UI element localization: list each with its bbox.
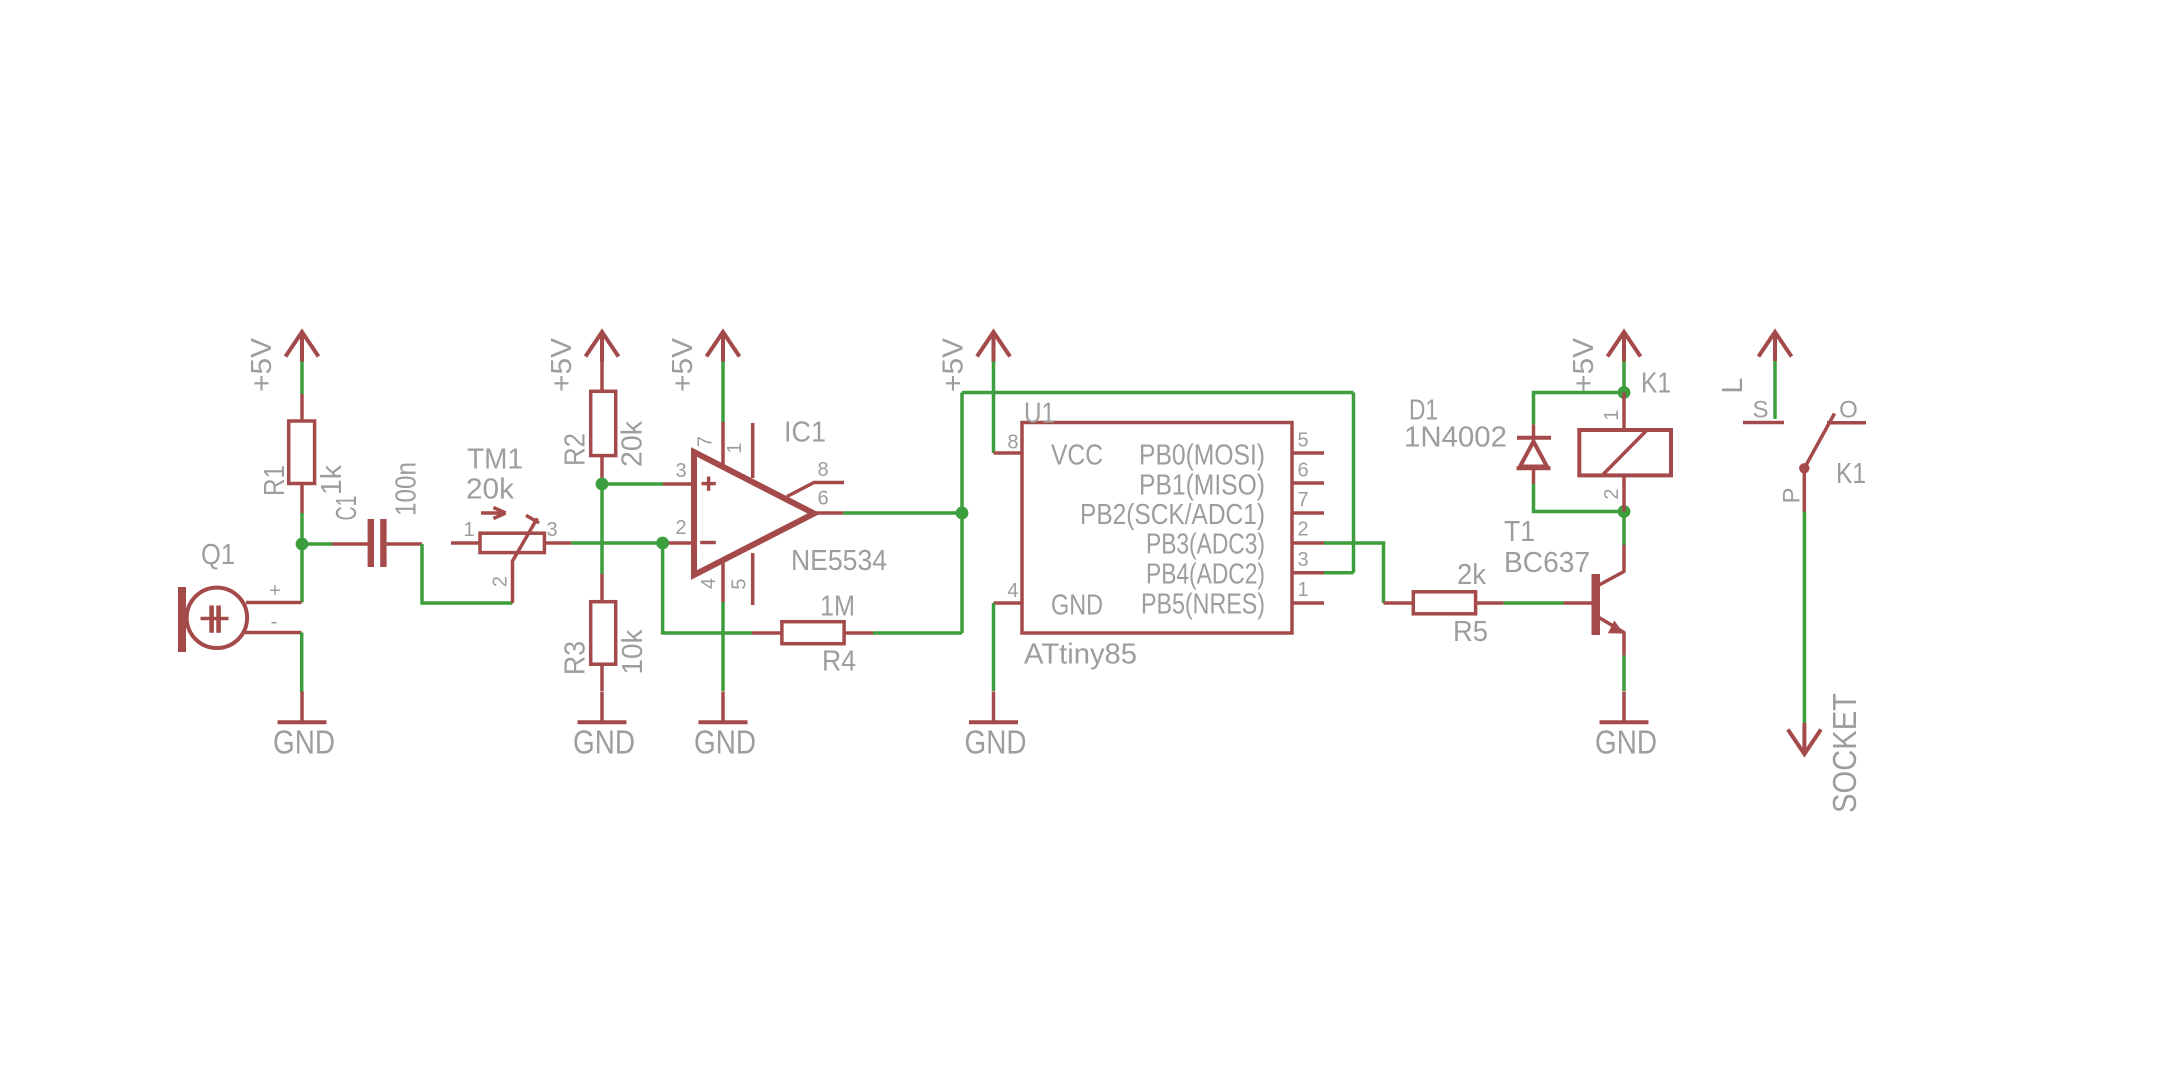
wire +5V to U1 pin8 [992, 362, 996, 454]
pin 8 of IC1 [787, 483, 844, 497]
ground (U1) [969, 692, 1018, 723]
svg-text:7: 7 [695, 436, 717, 447]
wire R5 to T1 base [1504, 601, 1564, 605]
supply +5V (R1 branch) [286, 332, 319, 362]
pin 3 of U1 [1292, 571, 1324, 575]
wire D1 anode to node F [1534, 484, 1625, 512]
wire +5V to node E [1622, 362, 1626, 393]
svg-text:20k: 20k [466, 474, 515, 506]
pin 3 of IC1 [663, 482, 691, 486]
pin 1 of U1 [1292, 601, 1324, 605]
pin 6 of IC1 [814, 511, 843, 515]
svg-text:+5V: +5V [667, 337, 699, 392]
resistor R4 [752, 622, 873, 644]
svg-text:GND: GND [573, 724, 635, 761]
ground (T1) [1600, 692, 1649, 723]
svg-text:IC1: IC1 [784, 417, 826, 449]
svg-text:1: 1 [1601, 409, 1623, 420]
wire node B to R3 [600, 484, 604, 574]
wire IC1 pin4 to GND [721, 602, 725, 691]
resistor R3 [591, 574, 616, 691]
wire TM1 pin3 to op-amp pin2 [571, 541, 663, 545]
svg-text:PB2(SCK/ADC1): PB2(SCK/ADC1) [1080, 499, 1265, 531]
svg-text:20k: 20k [617, 421, 649, 467]
pin 2 of U1 [1292, 541, 1324, 545]
ground (IC1) [699, 692, 748, 723]
svg-text:+: + [269, 580, 281, 602]
svg-text:8: 8 [817, 459, 828, 481]
pin - of Q1 [243, 631, 302, 635]
diode D1 [1517, 424, 1552, 484]
pin 8 of U1 (VCC) [994, 451, 1023, 455]
wire node A to C1 [302, 542, 332, 546]
pin 7 of IC1 [721, 422, 725, 467]
node E junction (relay top) [1618, 386, 1631, 399]
svg-text:1k: 1k [316, 465, 348, 495]
svg-text:3: 3 [1298, 549, 1309, 571]
node D junction (output) [956, 507, 969, 520]
svg-text:1: 1 [1298, 579, 1309, 601]
wire T1 emitter to GND [1622, 656, 1626, 691]
svg-text:GND: GND [694, 724, 756, 761]
wire C1 to TM1 wiper [422, 544, 513, 603]
supply +5V (U1) [977, 332, 1010, 362]
svg-text:L: L [1717, 377, 1749, 393]
resistor R5 [1384, 592, 1504, 614]
wire Q1 minus to GND [300, 633, 304, 693]
svg-text:T1: T1 [1504, 516, 1535, 548]
svg-text:VCC: VCC [1051, 440, 1103, 472]
microphone Q1 [178, 587, 247, 652]
wire into PB4 stub [1324, 571, 1354, 575]
svg-text:1: 1 [724, 442, 746, 453]
svg-text:Q1: Q1 [201, 539, 235, 571]
wire +5V to R1 [300, 362, 304, 395]
wire node E to D1 cathode [1534, 393, 1625, 425]
node C junction (inverting input) [656, 537, 669, 550]
pin 4 of U1 (GND) [994, 601, 1023, 605]
svg-text:+5V: +5V [1568, 337, 1600, 392]
node B junction (R2/R3) [596, 478, 609, 491]
supply arrow SOCKET [1788, 723, 1821, 754]
svg-text:5: 5 [729, 578, 751, 589]
svg-text:1: 1 [463, 519, 474, 541]
svg-text:K1: K1 [1641, 368, 1671, 400]
svg-text:+5V: +5V [246, 337, 278, 392]
svg-text:PB1(MISO): PB1(MISO) [1139, 470, 1265, 502]
svg-text:4: 4 [698, 578, 720, 589]
wire feedback from node C [663, 543, 752, 633]
pin 5 of IC1 [751, 553, 755, 605]
supply +5V (relay) [1608, 332, 1641, 362]
svg-text:S: S [1752, 397, 1768, 424]
svg-text:NE5534: NE5534 [791, 545, 887, 577]
svg-text:GND: GND [1051, 590, 1103, 622]
svg-text:GND: GND [273, 724, 335, 761]
svg-text:8: 8 [1007, 432, 1018, 454]
wire IC1 pin6 to node D [843, 511, 962, 515]
svg-text:5: 5 [1298, 430, 1309, 452]
svg-text:ATtiny85: ATtiny85 [1024, 639, 1137, 671]
svg-text:PB4(ADC2): PB4(ADC2) [1146, 559, 1265, 591]
svg-text:1M: 1M [820, 591, 855, 623]
pin 1 of IC1 [751, 423, 755, 478]
supply +5V (R2 branch) [586, 332, 619, 362]
supply +5V (IC1) [707, 332, 740, 362]
svg-text:BC637: BC637 [1504, 547, 1590, 579]
svg-text:+5V: +5V [546, 337, 578, 392]
svg-text:4: 4 [1007, 580, 1018, 602]
node F junction (relay bottom) [1618, 505, 1631, 518]
svg-text:R2: R2 [560, 433, 592, 466]
contact terminal S [1743, 421, 1784, 425]
ground (R3) [578, 692, 627, 723]
svg-text:C1: C1 [331, 496, 363, 521]
svg-text:SOCKET: SOCKET [1826, 693, 1863, 813]
svg-text:2: 2 [1298, 519, 1309, 541]
svg-text:GND: GND [965, 724, 1027, 761]
switch lever K1 [1799, 414, 1834, 512]
ground (mic) [278, 692, 327, 723]
resistor R2 [591, 362, 616, 484]
wire down to PB4 pin [1352, 393, 1356, 573]
trimmer TM1 [451, 508, 571, 604]
svg-text:3: 3 [546, 519, 557, 541]
svg-text:R1: R1 [259, 465, 291, 496]
wire node B to op-amp pin3 [602, 482, 663, 486]
svg-text:3: 3 [675, 460, 686, 482]
svg-text:R5: R5 [1453, 616, 1488, 648]
wire T1 collector to relay [1622, 512, 1626, 546]
svg-text:R3: R3 [560, 641, 592, 675]
pin 6 of U1 [1292, 481, 1324, 485]
capacitor C1 [332, 519, 422, 567]
wire output to PB4 (top run) [962, 391, 1354, 395]
pin 2 of IC1 [663, 541, 691, 545]
svg-text:P: P [1779, 487, 1806, 503]
resistor R1 [289, 394, 315, 513]
wire L to contact S [1773, 361, 1777, 419]
node A junction [296, 538, 309, 551]
svg-text:TM1: TM1 [467, 444, 523, 476]
transistor T1 [1564, 544, 1625, 655]
svg-text:1N4002: 1N4002 [1404, 422, 1507, 454]
svg-text:K1: K1 [1836, 458, 1866, 490]
svg-text:GND: GND [1595, 724, 1657, 761]
svg-text:R4: R4 [822, 646, 856, 678]
wire P to socket [1803, 512, 1807, 724]
svg-text:PB5(NRES): PB5(NRES) [1141, 589, 1265, 621]
wire U1 pin4 to GND [992, 603, 996, 691]
svg-text:U1: U1 [1024, 398, 1055, 430]
svg-text:6: 6 [817, 488, 828, 510]
svg-text:7: 7 [1298, 489, 1309, 511]
svg-text:10k: 10k [617, 629, 649, 674]
svg-text:2: 2 [675, 517, 686, 539]
wire output vertical [960, 393, 964, 634]
supply arrow L [1759, 332, 1792, 361]
svg-text:PB0(MOSI): PB0(MOSI) [1139, 440, 1265, 472]
IC U1 body [1022, 423, 1292, 634]
pin 5 of U1 [1292, 451, 1324, 455]
wire R1 to node A [300, 513, 304, 603]
op-amp IC1 [694, 452, 814, 575]
svg-text:-: - [271, 611, 278, 633]
relay coil K1 [1579, 393, 1671, 512]
svg-text:2: 2 [490, 576, 512, 587]
svg-text:O: O [1839, 397, 1858, 424]
contact terminal O [1827, 421, 1866, 425]
wire +5V to IC1 pin7 [721, 362, 725, 424]
svg-text:100n: 100n [391, 462, 423, 516]
svg-text:+5V: +5V [938, 337, 970, 392]
wire R4 to output node [873, 631, 962, 635]
svg-text:6: 6 [1298, 460, 1309, 482]
svg-text:2: 2 [1601, 488, 1623, 499]
pin + of Q1 [246, 601, 302, 605]
svg-text:PB3(ADC3): PB3(ADC3) [1146, 529, 1265, 561]
wire PB3 to R5 [1324, 543, 1384, 603]
svg-text:2k: 2k [1457, 559, 1486, 591]
pin 4 of IC1 [721, 560, 725, 602]
pin 7 of U1 [1292, 511, 1324, 515]
